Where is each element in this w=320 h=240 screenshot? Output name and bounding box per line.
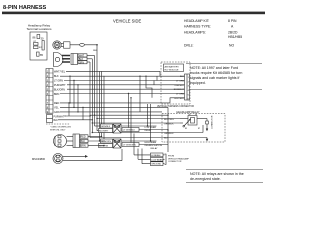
svg-text:BLK: BLK: [54, 75, 59, 78]
svg-text:VEHICLE HARNESS CONNECTOR: VEHICLE HARNESS CONNECTOR: [157, 105, 194, 108]
svg-text:BRN/WHT: BRN/WHT: [174, 89, 185, 91]
wire BLK into relay: [90, 137, 180, 139]
label BLK: [80, 139, 88, 142]
svg-text:HI BEAM: HI BEAM: [151, 154, 160, 157]
svg-text:GRN: GRN: [54, 111, 60, 114]
wire bus x92.3: [91, 59, 93, 133]
fuse F1: [80, 43, 85, 46]
svg-text:BLK/ORG: BLK/ORG: [164, 119, 174, 121]
DRL label box: [47, 115, 53, 123]
wire corner x69: [68, 103, 70, 116]
svg-text:LT GRN/BLK: LT GRN/BLK: [123, 130, 136, 132]
svg-text:BLK: BLK: [54, 120, 59, 122]
svg-text:CONNECTOR: CONNECTOR: [212, 115, 214, 129]
wire J3 pin9 GRN: [60, 111, 162, 113]
svg-text:86: 86: [189, 114, 191, 116]
svg-text:CONNECTOR: CONNECTOR: [168, 161, 182, 163]
diode on vertical: [206, 119, 208, 129]
wire J3 pin6 BRN: [60, 93, 185, 95]
wire P4 bottom long: [63, 160, 122, 162]
note: relays de-energized: [186, 170, 263, 183]
wire corner x83: [82, 107, 84, 119]
wire hi beam: [134, 154, 151, 156]
wire long y115: [90, 114, 168, 116]
pin wires: [180, 118, 188, 120]
note: Ford kit: [186, 64, 262, 90]
svg-text:LOW BEAM: LOW BEAM: [151, 158, 163, 161]
svg-text:2B/2D: 2B/2D: [228, 31, 238, 35]
wire J2 row1: [87, 55, 95, 57]
wire P3 pin3: [67, 145, 74, 147]
svg-text:GRN/BLK: GRN/BLK: [101, 126, 111, 128]
wire P3 pin1: [67, 136, 74, 138]
wire J2 row3: [87, 61, 90, 63]
label BLK: [78, 57, 87, 60]
node: bus top junction: [96, 44, 98, 46]
wire bus x101.5: [101, 71, 103, 136]
label BRN: [80, 144, 88, 147]
lamp group 2: [99, 139, 169, 148]
svg-text:ORN/BLK: ORN/BLK: [174, 85, 184, 87]
connector J3 (9-pin): [46, 69, 53, 115]
wire to bus: [70, 44, 97, 46]
wire J3 pin8 YEL: [60, 106, 168, 108]
wire P3 pin2: [67, 140, 74, 142]
svg-text:GRN/BLK: GRN/BLK: [164, 133, 174, 135]
svg-text:BLK/WHT: BLK/WHT: [99, 131, 109, 133]
wire bus x94.5: [94, 56, 96, 127]
svg-text:YEL: YEL: [54, 106, 59, 109]
svg-text:de-energized state.: de-energized state.: [190, 177, 221, 181]
label RED: [80, 135, 88, 138]
wire P1 stubs: [61, 42, 64, 44]
svg-text:PUR/WHT: PUR/WHT: [54, 84, 66, 87]
svg-text:WITH DRL ONLY: WITH DRL ONLY: [50, 129, 66, 131]
svg-text:* USED ON VEHICLES: * USED ON VEHICLES: [50, 127, 72, 129]
svg-text:HB1/HB5: HB1/HB5: [228, 35, 242, 39]
wire GRN/BLK into relay: [92, 132, 180, 134]
svg-text:BLK/ORN: BLK/ORN: [54, 88, 65, 91]
svg-text:Terminal Locations: Terminal Locations: [26, 27, 52, 31]
wire J5 BRN: [88, 145, 104, 147]
svg-text:NOTE: All 1997 and later Ford: NOTE: All 1997 and later Ford: [190, 66, 238, 70]
connector P1 (2-pin round): [53, 41, 61, 49]
vehicle harness connector J4 (dashed): [157, 62, 194, 108]
svg-text:RELAY: RELAY: [151, 147, 159, 150]
svg-text:HARNESS TYPE:: HARNESS TYPE:: [184, 25, 211, 29]
svg-text:DRLs:: DRLs:: [184, 44, 193, 48]
svg-text:30: 30: [195, 114, 197, 116]
svg-text:WHT/YEL: WHT/YEL: [54, 70, 66, 73]
svg-text:LT GRN: LT GRN: [54, 79, 63, 82]
svg-text:WHT/BLK: WHT/BLK: [174, 98, 184, 100]
connector P4 (2-pin round): [53, 154, 63, 164]
svg-text:BRN: BRN: [54, 93, 59, 96]
svg-text:GRN: GRN: [79, 61, 85, 64]
connector P2 (3-pin round): [54, 53, 71, 67]
svg-text:equipped.: equipped.: [190, 81, 206, 85]
svg-text:87: 87: [198, 128, 200, 130]
wire J3 pin3 LT GRN: [64, 80, 185, 82]
headlamp relay K1 (dashed): [162, 110, 225, 142]
wire DRL BLK: [58, 119, 92, 121]
connector block J5: [73, 134, 80, 148]
svg-text:HIGH BEAM: HIGH BEAM: [145, 141, 157, 144]
wire BLK/ORG into relay: [97, 118, 180, 120]
svg-text:PUR/WHT *: PUR/WHT *: [54, 116, 66, 118]
wire jog x74: [73, 81, 75, 108]
connector block J1: [64, 42, 71, 48]
svg-text:VEHICLE SIDE: VEHICLE SIDE: [113, 19, 141, 24]
label WHT: [78, 54, 87, 57]
wire J5 BLK: [88, 140, 105, 142]
wire jog x70: [69, 76, 71, 103]
svg-text:BLK: BLK: [180, 76, 185, 78]
right-side verticals: [147, 104, 149, 126]
svg-text:FROM: FROM: [168, 156, 174, 158]
svg-text:BLK: BLK: [81, 140, 86, 143]
svg-text:trucks require Kit #64585 for: trucks require Kit #64585 for turn: [190, 71, 242, 75]
wire J3 pin2 BLK: [60, 75, 185, 77]
wire ORN/BLK into relay: [92, 122, 180, 124]
svg-text:GROUND: GROUND: [151, 164, 161, 166]
J3 wire labels: [54, 70, 66, 114]
svg-text:RED: RED: [54, 102, 59, 105]
wire P4 top with arrow: [63, 155, 85, 157]
hi/lo/ground labels: [151, 153, 190, 166]
node dots: [94, 115, 95, 116]
svg-text:RED: RED: [93, 50, 98, 52]
relay symbol: [188, 116, 197, 126]
wire low beam: [138, 158, 151, 160]
svg-text:8 PIN: 8 PIN: [228, 19, 237, 23]
svg-text:signals and cab marker lights: signals and cab marker lights if: [190, 76, 239, 80]
svg-text:HEADLAMPS:: HEADLAMPS:: [184, 31, 206, 35]
wire jog x146: [146, 76, 152, 98]
wire bus x99.5: [99, 71, 101, 141]
svg-text:HEADLAMP KIT:: HEADLAMP KIT:: [184, 19, 209, 23]
wire J3 pin4 PUR/WHT: [67, 84, 185, 86]
wire DRL PUR/WHT: [64, 115, 90, 117]
svg-text:8-PIN HARNESS: 8-PIN HARNESS: [3, 5, 46, 11]
spec table: [184, 19, 242, 48]
connector block J2: [71, 54, 78, 65]
wire ground: [142, 163, 151, 165]
wire jog x78: [77, 85, 79, 112]
headlamp relay terminal box: [30, 32, 47, 60]
svg-text:NOTE: All relays are shown in: NOTE: All relays are shown in the: [190, 172, 244, 176]
svg-text:LT GRN: LT GRN: [176, 81, 184, 83]
svg-text:BRN: BRN: [81, 145, 86, 148]
svg-text:A/M BATTERY: A/M BATTERY: [165, 65, 180, 68]
wire bus x104: [103, 76, 105, 146]
connector P3 (3-pin round, battery): [54, 135, 67, 148]
svg-text:RLY MODULE: RLY MODULE: [165, 70, 180, 72]
wire jog x140: [139, 76, 141, 112]
svg-text:NO: NO: [229, 44, 234, 48]
wire J2 row2: [87, 58, 92, 60]
svg-text:LT GRN: LT GRN: [176, 94, 184, 96]
svg-text:GRN/ORN: GRN/ORN: [101, 141, 111, 143]
wire drop to lamp group2 label: [130, 98, 132, 143]
svg-text:85: 85: [185, 128, 187, 130]
svg-text:RED: RED: [81, 136, 86, 139]
title bar: [2, 12, 265, 15]
svg-text:VEHICLE HEADLAMP: VEHICLE HEADLAMP: [168, 157, 190, 160]
lamp group 1: [99, 124, 169, 133]
svg-text:ISOLATION: ISOLATION: [151, 144, 163, 147]
wire J3 pin5 BLK/ORN: [67, 88, 185, 90]
wire J3 pin7 RED: [60, 102, 170, 104]
wire bus x97: [96, 45, 98, 131]
wire J5 RED: [88, 136, 102, 138]
svg-text:ORN/BLK: ORN/BLK: [164, 124, 174, 126]
label GRN: [78, 61, 87, 64]
wire drop to lamp group1 label: [128, 94, 130, 128]
wire J3 pin1 WHT/YEL: [66, 70, 160, 72]
wire bus x90: [89, 62, 91, 138]
down arrow: [206, 129, 208, 132]
svg-text:MSC03806: MSC03806: [32, 157, 46, 161]
